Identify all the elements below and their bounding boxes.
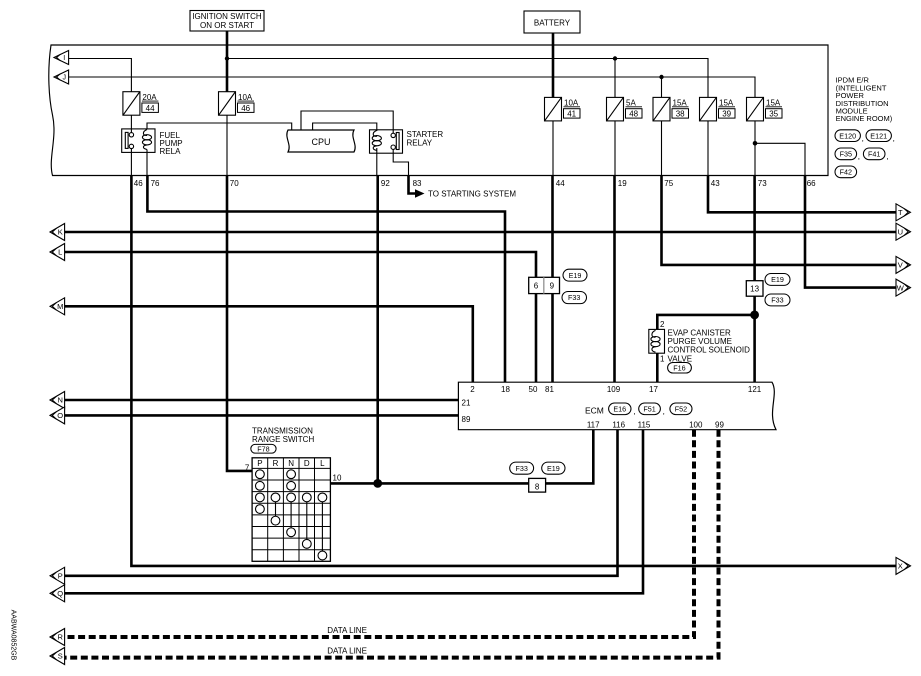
svg-text:TO STARTING SYSTEM: TO STARTING SYSTEM xyxy=(428,190,516,199)
svg-text:RELAY: RELAY xyxy=(407,139,433,148)
svg-text:20A: 20A xyxy=(142,93,157,102)
svg-text:81: 81 xyxy=(545,385,554,394)
svg-text:92: 92 xyxy=(381,179,390,188)
svg-text:X: X xyxy=(898,562,903,571)
svg-text:,: , xyxy=(862,134,864,143)
svg-text:Q: Q xyxy=(57,589,63,598)
svg-text:F33: F33 xyxy=(771,296,783,305)
svg-text:F16: F16 xyxy=(673,363,685,372)
svg-text:10A: 10A xyxy=(238,93,253,102)
svg-text:6: 6 xyxy=(534,282,539,291)
svg-text:RELA: RELA xyxy=(160,147,182,156)
svg-text:121: 121 xyxy=(748,385,762,394)
svg-text:E19: E19 xyxy=(547,464,560,473)
svg-text:99: 99 xyxy=(715,420,724,429)
svg-text:R: R xyxy=(273,459,279,468)
svg-text:116: 116 xyxy=(612,420,625,429)
svg-text:48: 48 xyxy=(629,110,638,119)
svg-text:44: 44 xyxy=(556,179,565,188)
svg-text:46: 46 xyxy=(134,179,143,188)
svg-text:RANGE SWITCH: RANGE SWITCH xyxy=(252,435,314,444)
svg-text:BATTERY: BATTERY xyxy=(534,19,571,28)
svg-text:18: 18 xyxy=(501,385,510,394)
svg-text:117: 117 xyxy=(587,420,600,429)
svg-text:10A: 10A xyxy=(564,99,579,108)
svg-text:15A: 15A xyxy=(673,99,688,108)
svg-text:9: 9 xyxy=(550,282,555,291)
svg-text:IGNITION SWITCH: IGNITION SWITCH xyxy=(192,12,262,21)
svg-text:100: 100 xyxy=(689,420,703,429)
svg-text:66: 66 xyxy=(807,179,816,188)
svg-text:N: N xyxy=(57,396,62,405)
svg-text:39: 39 xyxy=(722,110,731,119)
svg-text:2: 2 xyxy=(470,385,475,394)
svg-text:P: P xyxy=(58,572,63,581)
svg-text:F35: F35 xyxy=(840,149,852,158)
svg-text:AABWA0852GB: AABWA0852GB xyxy=(10,610,17,661)
svg-text:73: 73 xyxy=(758,179,767,188)
svg-text:L: L xyxy=(320,459,325,468)
svg-text:,: , xyxy=(893,134,895,143)
svg-text:I: I xyxy=(63,55,65,62)
svg-text:109: 109 xyxy=(607,385,621,394)
svg-text:F52: F52 xyxy=(675,404,687,413)
svg-text:38: 38 xyxy=(676,110,685,119)
svg-text:CPU: CPU xyxy=(311,137,330,147)
svg-text:44: 44 xyxy=(146,104,155,113)
svg-text:8: 8 xyxy=(535,482,540,491)
svg-text:7: 7 xyxy=(245,464,250,473)
svg-text:L: L xyxy=(58,248,62,257)
svg-text:E19: E19 xyxy=(569,271,582,280)
svg-text:DATA LINE: DATA LINE xyxy=(327,646,367,655)
svg-text:115: 115 xyxy=(638,420,651,429)
svg-text:75: 75 xyxy=(664,179,673,188)
svg-text:J: J xyxy=(62,75,66,82)
svg-text:R: R xyxy=(57,633,63,642)
svg-text:N: N xyxy=(288,459,294,468)
svg-text:35: 35 xyxy=(769,110,778,119)
svg-text:PURGE VOLUME: PURGE VOLUME xyxy=(668,337,732,346)
svg-text:15A: 15A xyxy=(766,99,781,108)
svg-text:,: , xyxy=(886,152,888,161)
svg-text:ENGINE ROOM): ENGINE ROOM) xyxy=(836,114,893,123)
svg-text:U: U xyxy=(898,227,903,236)
svg-text:DATA LINE: DATA LINE xyxy=(327,626,367,635)
svg-text:P: P xyxy=(257,459,262,468)
svg-text:10: 10 xyxy=(333,474,342,483)
svg-text:21: 21 xyxy=(462,399,471,408)
svg-text:E16: E16 xyxy=(613,404,626,413)
svg-text:2: 2 xyxy=(660,320,665,329)
svg-text:,: , xyxy=(663,407,665,416)
svg-text:17: 17 xyxy=(649,385,658,394)
svg-text:83: 83 xyxy=(413,179,422,188)
svg-text:46: 46 xyxy=(241,104,250,113)
svg-text:E19: E19 xyxy=(771,275,784,284)
svg-text:ON OR START: ON OR START xyxy=(200,21,254,30)
svg-text:70: 70 xyxy=(230,179,239,188)
svg-text:1: 1 xyxy=(660,355,665,364)
svg-text:O: O xyxy=(57,411,63,420)
svg-text:K: K xyxy=(58,228,63,237)
svg-text:43: 43 xyxy=(711,179,720,188)
svg-text:W: W xyxy=(897,283,905,292)
svg-text:5A: 5A xyxy=(626,99,636,108)
svg-text:76: 76 xyxy=(151,179,160,188)
svg-text:15A: 15A xyxy=(719,99,734,108)
svg-text:M: M xyxy=(57,302,63,311)
svg-text:E121: E121 xyxy=(870,131,887,140)
svg-text:F33: F33 xyxy=(515,464,527,473)
svg-text:,: , xyxy=(633,407,635,416)
svg-text:F33: F33 xyxy=(568,293,580,302)
svg-text:89: 89 xyxy=(462,415,471,424)
svg-text:F42: F42 xyxy=(840,167,852,176)
svg-text:S: S xyxy=(58,652,63,661)
svg-text:V: V xyxy=(898,261,903,270)
svg-text:F41: F41 xyxy=(868,149,880,158)
svg-text:50: 50 xyxy=(529,385,538,394)
svg-text:E120: E120 xyxy=(839,131,856,140)
svg-text:41: 41 xyxy=(567,110,576,119)
svg-text:,: , xyxy=(858,152,860,161)
svg-text:13: 13 xyxy=(750,285,759,294)
svg-text:D: D xyxy=(304,459,310,468)
svg-text:19: 19 xyxy=(618,179,627,188)
svg-text:VALVE: VALVE xyxy=(668,354,693,363)
svg-text:F51: F51 xyxy=(643,404,655,413)
svg-text:ECM: ECM xyxy=(585,406,604,416)
svg-text:T: T xyxy=(898,208,903,217)
svg-text:F78: F78 xyxy=(257,444,269,453)
